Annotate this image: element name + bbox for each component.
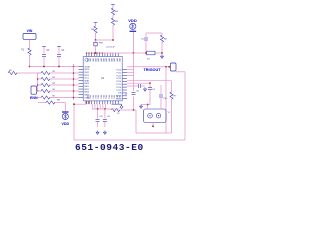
svg-text:PD1: PD1 [89,95,91,99]
svg-text:PC15: PC15 [116,84,121,86]
svg-text:SDA1: SDA1 [84,79,89,82]
svg-text:PC16: PC16 [116,87,121,89]
svg-text:VIN: VIN [27,29,33,33]
svg-text:PC14: PC14 [116,81,121,83]
svg-text:TRIGOUT: TRIGOUT [143,68,161,72]
svg-text:PD1: PD1 [94,95,96,99]
svg-text:PA10: PA10 [84,82,88,85]
svg-text:PD1: PD1 [115,95,117,99]
svg-text:PD1: PD1 [97,95,99,99]
svg-text:PB12: PB12 [84,75,89,77]
svg-text:PC10: PC10 [116,70,121,72]
svg-text:PC12: PC12 [116,75,121,77]
svg-text:PD1: PD1 [99,95,101,99]
svg-text:PC11: PC11 [117,72,122,74]
svg-text:PA12: PA12 [84,88,88,91]
svg-text:PD1: PD1 [102,95,104,99]
svg-text:PD1: PD1 [107,95,109,99]
svg-text:PD1: PD1 [118,95,120,99]
svg-text:PB10: PB10 [84,69,89,71]
svg-text:VDD: VDD [128,18,137,23]
svg-text:VDDA: VDDA [84,65,90,68]
svg-text:ENN: ENN [30,96,38,100]
svg-text:C2 0.1uF: C2 0.1uF [106,46,116,48]
svg-text:PC13: PC13 [116,78,121,80]
svg-text:PD1: PD1 [110,95,112,99]
svg-text:PA11: PA11 [84,85,88,88]
svg-text:PD1: PD1 [105,95,107,99]
svg-text:PB11: PB11 [84,72,88,74]
svg-text:PD1: PD1 [86,95,88,99]
svg-text:PD1: PD1 [113,95,115,99]
svg-text:651-0943-E0: 651-0943-E0 [75,142,144,153]
svg-text:PD1: PD1 [91,95,93,99]
svg-text:SCL1: SCL1 [84,78,89,80]
svg-text:VDD: VDD [62,122,70,126]
svg-text:PA13: PA13 [84,91,88,94]
svg-text:PC17: PC17 [116,90,121,92]
